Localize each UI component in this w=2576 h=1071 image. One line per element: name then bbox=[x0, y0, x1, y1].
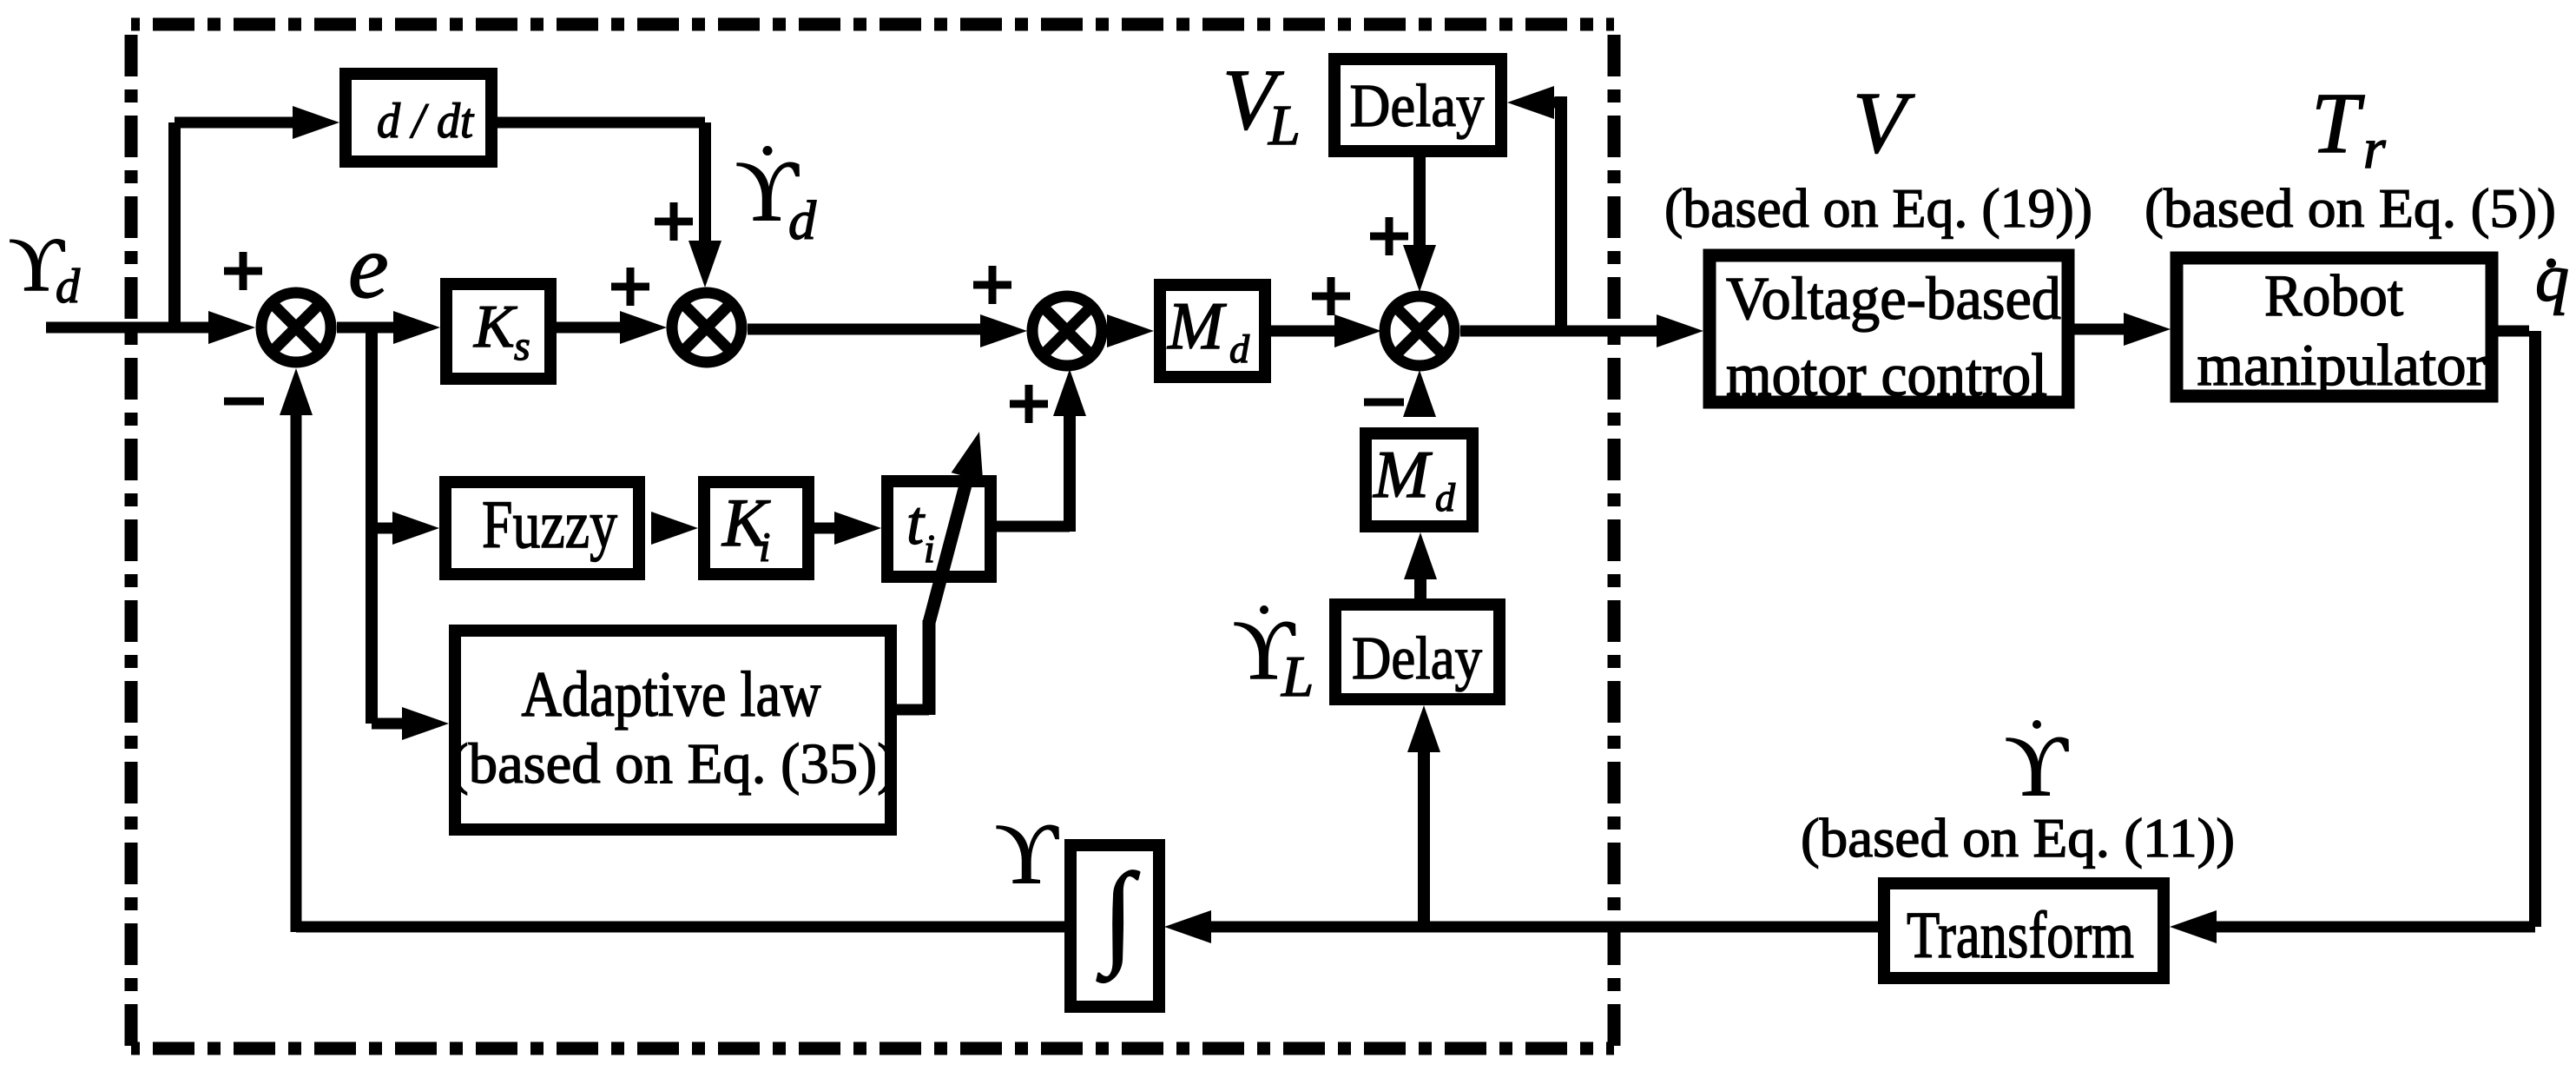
svg-text:q: q bbox=[2535, 240, 2569, 315]
svg-text:d / dt: d / dt bbox=[377, 94, 474, 149]
wire: Delay (lower) output up into Md (lower) bbox=[1404, 532, 1437, 598]
svg-text:manipulator: manipulator bbox=[2197, 332, 2487, 398]
svg-text:s: s bbox=[514, 323, 530, 369]
label dot-q bbox=[2535, 240, 2569, 315]
wire: Delay (upper) output down into S4 bbox=[1403, 157, 1436, 292]
block ti (adjustable) bbox=[887, 481, 991, 577]
label dot-Upsilon_d bbox=[735, 142, 817, 251]
svg-text:Transform: Transform bbox=[1907, 899, 2134, 972]
svg-text:(based on Eq. (35)): (based on Eq. (35)) bbox=[450, 732, 897, 796]
plus sign at S2 top input bbox=[655, 202, 693, 241]
block Ki bbox=[704, 482, 808, 574]
summing junction S2 bbox=[672, 293, 741, 362]
svg-text:e: e bbox=[348, 215, 389, 317]
plus sign at S3 bottom input bbox=[1010, 385, 1048, 423]
wire: Robot manipulator output down to Transform bbox=[2170, 331, 2535, 943]
svg-text:ϒ: ϒ bbox=[995, 805, 1059, 902]
plus sign at S4 left input bbox=[1312, 277, 1350, 315]
wire: Md output to summing junction S4 bbox=[1271, 314, 1381, 347]
wire: S2 output to summing junction S3 bbox=[748, 314, 1027, 347]
block Voltage-based motor control bbox=[1710, 255, 2068, 409]
svg-text:d: d bbox=[1435, 475, 1456, 519]
block Delay (upper, voltage) bbox=[1334, 59, 1501, 151]
svg-text:K: K bbox=[473, 294, 517, 360]
wire: d/dt output to summing junction S2 (derivative feedforward) bbox=[497, 122, 721, 288]
svg-text:V: V bbox=[1853, 74, 1915, 171]
block Ks bbox=[446, 284, 550, 379]
block Delay (lower) bbox=[1335, 605, 1499, 699]
wire: Md (lower) output up into S4 bbox=[1403, 370, 1436, 417]
svg-text:M: M bbox=[1373, 437, 1433, 512]
plus sign at S1 upper input bbox=[224, 252, 262, 290]
dash-dot boundary box of controller bbox=[131, 24, 1614, 1048]
svg-text:L: L bbox=[1268, 94, 1301, 157]
wire: S3 output arrow into Md bbox=[1107, 314, 1154, 347]
wire: ti output up into S3 bbox=[997, 369, 1086, 532]
minus sign at S1 lower input bbox=[224, 398, 264, 406]
block Md (feedback, lower) bbox=[1366, 433, 1472, 526]
svg-text:r: r bbox=[2363, 117, 2386, 181]
wire: branch up from feedback line into Delay (lower) bbox=[1407, 705, 1440, 927]
block Adaptive law bbox=[450, 631, 897, 830]
summing junction S3 bbox=[1032, 296, 1102, 366]
svg-text:Delay: Delay bbox=[1352, 625, 1482, 692]
block integrator bbox=[1071, 845, 1159, 1007]
wire: branch up from input to d/dt bbox=[175, 106, 339, 333]
svg-text:(based on Eq. (5)): (based on Eq. (5)) bbox=[2144, 177, 2556, 239]
wire: Ki output to ti bbox=[814, 512, 881, 545]
block Robot manipulator bbox=[2177, 258, 2492, 398]
svg-text:ϒ: ϒ bbox=[2005, 717, 2069, 814]
block Fuzzy bbox=[445, 482, 639, 574]
plus sign at S4 top input bbox=[1370, 217, 1408, 255]
wire: branch up from S4 output back to Delay (upper) bbox=[1507, 86, 1561, 331]
wire: Adaptive law output up through ti (adjusting arrow) bbox=[897, 432, 983, 715]
svg-text:d: d bbox=[1229, 327, 1250, 371]
label dot-Upsilon_L bbox=[1233, 604, 1314, 709]
wire: Transform output to integrator bbox=[1164, 910, 1878, 943]
wire: Fuzzy output to Ki bbox=[651, 512, 698, 545]
svg-text:(based on Eq. (19)): (based on Eq. (19)) bbox=[1664, 177, 2092, 239]
svg-text:t: t bbox=[906, 488, 926, 558]
svg-text:L: L bbox=[1281, 645, 1314, 709]
svg-text:Delay: Delay bbox=[1350, 73, 1485, 140]
minus sign at S4 bottom input bbox=[1364, 399, 1404, 407]
label T_r bbox=[2311, 75, 2386, 181]
svg-text:d: d bbox=[56, 260, 81, 314]
block Transform bbox=[1884, 883, 2164, 978]
label dot-Upsilon above Transform bbox=[2005, 717, 2069, 814]
svg-text:motor control: motor control bbox=[1726, 342, 2047, 409]
wire: S1 output to Ks bbox=[337, 311, 440, 344]
wire: input Upsilon_d into summing junction S1 bbox=[46, 311, 255, 344]
svg-text:Fuzzy: Fuzzy bbox=[482, 486, 617, 562]
summing junction S4 bbox=[1385, 296, 1454, 366]
block Md (forward) bbox=[1160, 285, 1265, 377]
svg-text:i: i bbox=[924, 526, 935, 571]
summing junction S1 bbox=[261, 293, 331, 362]
wire: S4 output to Voltage-based motor control bbox=[1460, 314, 1703, 347]
svg-text:Voltage-based: Voltage-based bbox=[1726, 266, 2061, 333]
wire: e branch down to Fuzzy and Adaptive law bbox=[372, 327, 449, 740]
svg-text:Robot: Robot bbox=[2264, 262, 2403, 328]
wire: Ks output to summing junction S2 bbox=[557, 311, 667, 344]
svg-text:M: M bbox=[1167, 288, 1227, 363]
svg-text:i: i bbox=[759, 525, 770, 571]
block d/dt bbox=[346, 74, 491, 162]
svg-text:T: T bbox=[2311, 75, 2365, 171]
label V_L bbox=[1222, 51, 1301, 157]
svg-text:d: d bbox=[788, 189, 817, 251]
wire: Voltage-based output to Robot manipulator bbox=[2074, 313, 2171, 346]
svg-text:Adaptive law: Adaptive law bbox=[522, 659, 821, 731]
node Upsilon_d input label bbox=[9, 223, 81, 314]
plus sign at S3 left input bbox=[973, 266, 1011, 304]
svg-text:(based on Eq. (11)): (based on Eq. (11)) bbox=[1801, 807, 2235, 869]
plus sign at S2 left input bbox=[611, 268, 649, 306]
wire: integrator output left and up into S1 (minus) bbox=[280, 368, 1064, 932]
